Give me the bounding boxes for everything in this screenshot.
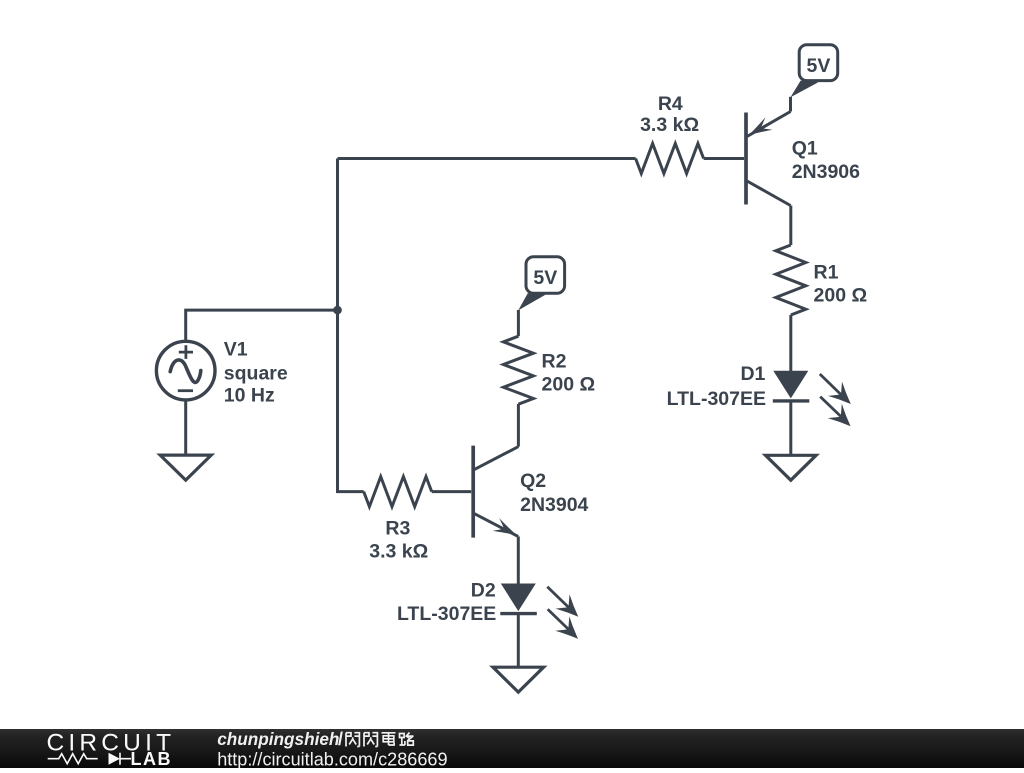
svg-text:R2: R2 xyxy=(542,350,567,372)
node junction dot xyxy=(333,306,342,315)
wire V1 bottom xyxy=(184,400,187,455)
CJK glyphs 閃閃電路 xyxy=(346,733,359,747)
resistor R1 200 ohm xyxy=(776,245,806,315)
svg-text:5V: 5V xyxy=(533,267,557,289)
svg-text:R4: R4 xyxy=(658,93,683,115)
svg-text:D1: D1 xyxy=(740,363,765,385)
wire R1 to D1 xyxy=(789,315,792,371)
svg-text:3.3 kΩ: 3.3 kΩ xyxy=(369,541,428,563)
footer bar xyxy=(0,729,1024,768)
svg-text:LTL-307EE: LTL-307EE xyxy=(667,388,766,410)
wire Q1 collector to R1 xyxy=(789,206,792,246)
wire D1 to ground xyxy=(789,401,792,455)
svg-text:10 Hz: 10 Hz xyxy=(224,385,275,407)
svg-text:Q1: Q1 xyxy=(792,138,818,160)
CircuitLab logo squiggle (resistor+diode) xyxy=(48,754,98,764)
svg-text:square: square xyxy=(224,363,288,385)
svg-text:200 Ω: 200 Ω xyxy=(814,284,868,306)
wire Q2 emitter to D2 xyxy=(517,536,520,583)
power flag 5V (Q1) xyxy=(791,45,838,98)
svg-text:/: / xyxy=(338,729,343,749)
svg-text:chunpingshieh: chunpingshieh xyxy=(217,729,339,749)
wire bus corner to R3 xyxy=(336,490,364,493)
svg-text:Q2: Q2 xyxy=(520,470,546,492)
svg-text:http://circuitlab.com/c286669: http://circuitlab.com/c286669 xyxy=(217,749,447,768)
svg-text:LAB: LAB xyxy=(131,749,173,768)
resistor R4 3.3k xyxy=(636,144,704,174)
svg-text:V1: V1 xyxy=(224,339,248,361)
LED diode D2 xyxy=(500,584,578,639)
svg-text:5V: 5V xyxy=(806,55,830,77)
wire V1 top xyxy=(186,310,338,341)
svg-text:R3: R3 xyxy=(385,517,410,539)
power flag 5V (R2) xyxy=(518,257,564,311)
wire R2 to 5V flag xyxy=(517,310,520,336)
wire Q2 collector to R2 xyxy=(517,404,520,447)
wire top horizontal to R4 xyxy=(338,157,636,160)
LED diode D1 xyxy=(773,371,851,426)
svg-text:3.3 kΩ: 3.3 kΩ xyxy=(640,114,699,136)
resistor R3 3.3k xyxy=(364,477,432,507)
svg-text:R1: R1 xyxy=(814,261,839,283)
ground below V1 xyxy=(160,455,211,480)
wire D2 to ground xyxy=(517,614,520,668)
ground below D2 xyxy=(493,667,544,692)
voltage source V1 xyxy=(156,341,215,400)
transistor Q2 2N3904 (NPN) xyxy=(473,446,518,538)
svg-text:2N3904: 2N3904 xyxy=(520,494,588,516)
svg-text:D2: D2 xyxy=(471,579,496,601)
ground below D1 xyxy=(766,455,817,480)
svg-text:LTL-307EE: LTL-307EE xyxy=(397,603,496,625)
svg-text:200 Ω: 200 Ω xyxy=(542,373,596,395)
transistor Q1 2N3906 (PNP) xyxy=(746,97,791,206)
svg-text:2N3906: 2N3906 xyxy=(792,161,860,183)
resistor R2 200 ohm xyxy=(503,336,533,404)
wire left bus vertical xyxy=(336,159,339,492)
